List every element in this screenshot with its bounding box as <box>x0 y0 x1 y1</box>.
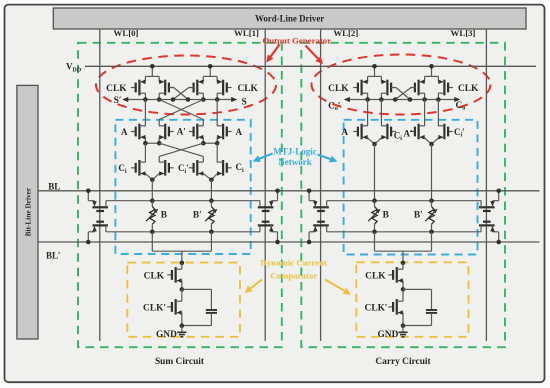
svg-text:Bit-Line Driver: Bit-Line Driver <box>23 187 32 236</box>
svg-text:CLK′: CLK′ <box>143 304 166 314</box>
nmos A' (sum inner-left) <box>169 131 174 133</box>
node on Co rail <box>393 97 398 102</box>
sum circuit green dashed box <box>78 43 282 347</box>
ground symbol sum <box>181 326 183 333</box>
wire bottom rail sum <box>182 325 212 327</box>
wire BL' tap WL0 <box>87 232 89 242</box>
Co output rail <box>345 99 459 101</box>
node on S rail <box>186 97 191 102</box>
pmos M3 (cross-coupled, sum) <box>189 87 194 89</box>
S output rail <box>123 99 236 101</box>
pmos M6 (cross-coupled, carry) <box>391 87 396 89</box>
carry circuit green dashed box <box>301 43 505 347</box>
word line WL[1] vertical wire <box>264 29 266 341</box>
sum PMOS pair2 VDD connection <box>203 75 217 77</box>
node BL tap WL3 <box>496 189 501 194</box>
node on S rail <box>143 97 148 102</box>
blue arrow to sum blue box <box>257 154 273 160</box>
svg-text:Word-Line Driver: Word-Line Driver <box>255 14 324 24</box>
svg-text:GND: GND <box>156 330 177 340</box>
svg-text:Sum Circuit: Sum Circuit <box>155 357 205 367</box>
wire crossed left-to-right row2-3 <box>159 143 203 156</box>
capacitor C sum <box>206 309 217 311</box>
pmos M2 (cross-coupled, sum) <box>169 87 174 89</box>
wire M7 gate to Co-bar cross <box>395 88 411 100</box>
MTJ sum branch1 (B) <box>151 201 153 207</box>
wire CLK' source carry <box>402 313 404 326</box>
yellow arrow to sum yellow box <box>248 280 263 291</box>
pmos M1 (CLK, sum left) <box>131 87 136 89</box>
wire BL tap WL2 <box>308 191 310 201</box>
wire CLK' drain carry <box>402 289 404 301</box>
svg-text:B: B <box>383 211 389 221</box>
svg-text:Dynamic Current: Dynamic Current <box>260 257 327 267</box>
access nmos upper WL2 (gate WL) <box>317 210 325 212</box>
svg-text:Network: Network <box>278 157 312 167</box>
svg-text:MTJ-Logic: MTJ-Logic <box>273 146 317 156</box>
wire CLK drain sum <box>181 263 183 269</box>
wire Co rail to carry logic row <box>424 100 426 126</box>
wire pmos drain to Co rail <box>437 93 439 99</box>
wire capacitor branch sum <box>182 288 212 290</box>
svg-text:A′: A′ <box>177 126 186 136</box>
sum Ci merge left <box>144 173 146 175</box>
node BL' tap WL0 <box>86 240 91 245</box>
nmos Ci' (sum inner-left) <box>169 167 174 169</box>
node carry branch1 lower <box>372 230 377 235</box>
sum PMOS pair1 VDD connection <box>145 75 159 77</box>
arrowhead S <box>231 97 237 102</box>
wire pmos drain to S rail <box>216 93 218 99</box>
node carry branch1 top <box>372 142 377 147</box>
node sum branch1 top <box>150 178 155 183</box>
node on Co rail <box>436 97 441 102</box>
wire BL tap WL0 <box>87 191 89 201</box>
carry MTJ-logic blue dashed box <box>344 120 478 255</box>
wire A-bar to Ci outer right <box>216 143 218 162</box>
svg-text:WL[2]: WL[2] <box>333 28 358 38</box>
nmos CLK' carry <box>388 306 393 308</box>
pmos M5 (CLK, carry left) <box>353 87 358 89</box>
svg-text:B: B <box>161 211 167 221</box>
wire crossed drain right-to-left <box>159 100 203 120</box>
node carry branch2 upper <box>429 198 434 203</box>
pmos M7 (cross-coupled, carry) <box>410 87 415 89</box>
wire CLK' source sum <box>181 313 183 326</box>
red arrow to carry ellipse <box>306 46 321 62</box>
node VDD-sum1 <box>150 64 155 69</box>
wire Co rail to carry logic row <box>437 100 439 126</box>
wire CLK source carry <box>402 281 404 290</box>
node BL' tap WL2 <box>307 240 312 245</box>
access nmos lower WL2 (gate WL) <box>317 221 325 223</box>
carry MTJ feed line lower <box>327 231 481 233</box>
node BL' tap WL3 <box>496 240 501 245</box>
nmos Ci' (carry right) <box>448 131 453 133</box>
sum MTJ-logic blue dashed box <box>115 120 250 254</box>
node carry branch2 top <box>429 142 434 147</box>
node sum branch2 lower <box>209 230 214 235</box>
svg-text:B′: B′ <box>414 211 423 221</box>
node on Co rail <box>379 97 384 102</box>
wire M6 gate to Co cross <box>396 88 410 100</box>
arrowhead Co' <box>344 97 350 102</box>
capacitor C carry <box>426 309 437 311</box>
carry logic merge right <box>424 136 426 139</box>
svg-text:CLK: CLK <box>106 84 127 94</box>
word line WL[0] vertical wire <box>99 29 101 341</box>
node on S rail <box>215 97 220 102</box>
nmos A (sum right) <box>227 131 232 133</box>
wire BL' tap WL2 <box>308 232 310 242</box>
carry MTJ feed line upper <box>327 200 481 202</box>
node VDD-carry2 <box>429 64 434 69</box>
node sum branch1 upper <box>150 198 155 203</box>
svg-text:A: A <box>342 127 349 137</box>
wire pmos drain to Co rail <box>367 93 369 99</box>
MTJ carry branch1 (B) <box>374 201 376 207</box>
bit-line driver bar <box>17 85 38 339</box>
node comparator mid sum <box>180 287 185 292</box>
svg-text:BL: BL <box>48 182 60 192</box>
nmos CLK sum <box>167 274 172 276</box>
nmos Ci' (sum inner-right) <box>189 167 194 169</box>
svg-text:CLK: CLK <box>238 84 259 94</box>
bit line BL' <box>38 241 540 243</box>
sum Ci merge right <box>202 173 204 175</box>
node comparator top sum <box>180 261 185 266</box>
wire capacitor branch carry <box>403 288 432 290</box>
access nmos upper WL3 (gate WL) <box>483 210 491 212</box>
node sum branch2 top <box>209 178 214 183</box>
wire BL' tap WL1 <box>277 232 279 242</box>
nmos A (carry left) <box>353 131 358 133</box>
node A-bar right 1 <box>201 141 206 146</box>
word-line driver bar <box>53 8 526 29</box>
wire carry branch1 upper <box>374 144 376 201</box>
node A-bar left 2 <box>157 141 162 146</box>
wire M3 gate to S-bar cross <box>173 88 189 100</box>
node VDD-carry1 <box>372 64 377 69</box>
node VDD-sum2 <box>208 64 213 69</box>
sum output-generator red dashed ellipse <box>96 56 276 115</box>
wire CLK' drain sum <box>181 289 183 301</box>
wire A-bar to Ci outer left <box>144 143 146 162</box>
access nmos lower WL1 (gate WL) <box>262 221 270 223</box>
VDD power rail <box>85 65 536 67</box>
node on Co rail <box>408 97 413 102</box>
wire bridge carry <box>374 232 376 251</box>
svg-text:CLK: CLK <box>365 271 386 281</box>
svg-text:CLK′: CLK′ <box>365 304 388 314</box>
wire carry branch2 upper <box>431 144 433 201</box>
node GND carry <box>401 323 406 328</box>
nmos A' (sum inner-right) <box>189 131 194 133</box>
node BL' tap WL1 <box>275 240 280 245</box>
node BL tap WL0 <box>86 189 91 194</box>
carry logic merge left <box>367 136 369 139</box>
node sum branch2 upper <box>209 198 214 203</box>
sum A-row source bar left <box>144 137 146 143</box>
node on Co rail <box>422 97 427 102</box>
node A-bar left 1 <box>143 141 148 146</box>
sum A-row source bar right <box>202 137 204 143</box>
node GND sum <box>180 323 185 328</box>
nmos Ci (carry inner-left) <box>391 131 396 133</box>
node carry branch1 upper <box>372 198 377 203</box>
wire pmos drain to S rail <box>158 93 160 99</box>
nmos Ci (sum right) <box>227 167 232 169</box>
wire S rail to A-row outer left <box>144 100 146 126</box>
nmos A (sum left) <box>131 131 136 133</box>
blue arrow to carry blue box <box>318 155 334 161</box>
svg-text:A′: A′ <box>404 128 413 138</box>
wire crossed right-to-left row2-3 <box>159 143 203 156</box>
node on Co rail <box>365 97 370 102</box>
svg-text:Co′: Co′ <box>328 101 341 112</box>
carry PMOS pair1 VDD connection <box>368 75 382 77</box>
svg-text:GND: GND <box>378 330 399 340</box>
svg-text:WL[1]: WL[1] <box>234 28 259 38</box>
node on S rail <box>157 97 162 102</box>
wire sum branch2 upper <box>210 180 212 201</box>
svg-text:CLK: CLK <box>144 271 165 281</box>
access nmos upper WL1 (gate WL) <box>262 210 270 212</box>
wire pmos drain to S rail <box>202 93 204 99</box>
node carry branch2 lower <box>429 230 434 235</box>
svg-text:WL[3]: WL[3] <box>451 28 476 38</box>
node sum branch1 lower <box>150 230 155 235</box>
carry comparator yellow dashed box <box>356 262 468 337</box>
svg-text:S′: S′ <box>114 96 122 106</box>
access nmos lower WL3 (gate WL) <box>483 221 491 223</box>
wire Co rail to carry logic row <box>367 100 369 126</box>
svg-text:WL[0]: WL[0] <box>114 28 139 38</box>
svg-text:Output Generator: Output Generator <box>262 35 331 45</box>
carry PMOS pair2 VDD connection <box>425 75 439 77</box>
node A-bar right 2 <box>215 141 220 146</box>
yellow arrow to carry yellow box <box>325 280 348 293</box>
access nmos upper WL0 (gate WL) <box>96 210 104 212</box>
wire pmos drain to S rail <box>144 93 146 99</box>
wire crossed drain left-to-right <box>159 100 203 120</box>
sum comparator yellow dashed box <box>127 263 240 337</box>
nmos CLK' sum <box>167 306 172 308</box>
wire CLK drain carry <box>402 263 404 269</box>
node comparator top carry <box>401 261 406 266</box>
wire M2 gate to S cross <box>174 88 188 100</box>
bit line BL <box>38 190 540 192</box>
wire BL tap WL3 <box>498 191 500 201</box>
pmos M4 (CLK, sum right) <box>227 87 232 89</box>
nmos Ci (sum left) <box>131 167 136 169</box>
word line WL[2] vertical wire <box>320 29 322 341</box>
arrowhead S' <box>122 97 128 102</box>
pmos M8 (CLK, carry right) <box>448 87 453 89</box>
nmos A' (carry inner-right) <box>410 131 415 133</box>
svg-text:Comparator: Comparator <box>270 270 317 280</box>
node on S rail <box>201 97 206 102</box>
wire BL' tap WL3 <box>498 232 500 242</box>
access nmos lower WL0 (gate WL) <box>96 221 104 223</box>
wire bridge sum <box>151 232 153 251</box>
MTJ carry branch2 (B') <box>431 201 433 207</box>
sum MTJ feed line lower <box>106 231 260 233</box>
svg-text:A: A <box>236 127 243 137</box>
node BL tap WL2 <box>307 189 312 194</box>
wire bottom rail carry <box>403 325 432 327</box>
node comparator mid carry <box>401 287 406 292</box>
wire Co rail to carry logic row <box>380 100 382 126</box>
node BL tap WL1 <box>275 189 280 194</box>
nmos CLK carry <box>388 274 393 276</box>
MTJ sum branch2 (B') <box>210 201 212 207</box>
svg-text:BL′: BL′ <box>46 251 61 261</box>
carry output-generator red dashed ellipse <box>312 55 491 115</box>
svg-text:Carry Circuit: Carry Circuit <box>375 357 431 367</box>
node on S rail <box>171 97 176 102</box>
svg-text:A: A <box>121 127 128 137</box>
word line WL[3] vertical wire <box>485 29 487 341</box>
wire pmos drain to Co rail <box>424 93 426 99</box>
wire CLK source sum <box>181 281 183 290</box>
ground symbol carry <box>402 326 404 333</box>
svg-text:CLK: CLK <box>458 84 479 94</box>
wire pmos drain to Co rail <box>380 93 382 99</box>
svg-text:S: S <box>242 97 247 107</box>
svg-text:B′: B′ <box>193 211 202 221</box>
arrowhead Co <box>454 97 460 102</box>
red arrow to sum ellipse <box>269 45 280 60</box>
wire sum branch1 upper <box>151 180 153 201</box>
svg-text:CLK: CLK <box>328 84 349 94</box>
wire BL tap WL1 <box>277 191 279 201</box>
sum MTJ feed line upper <box>106 200 260 202</box>
wire S rail to A-row outer right <box>216 100 218 126</box>
